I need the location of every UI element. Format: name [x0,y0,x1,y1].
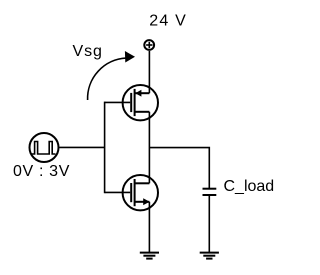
svg-text:24 V: 24 V [149,13,187,30]
wire M2 gate lead [105,191,131,193]
label 24 V [149,13,187,30]
svg-text:C_load: C_load [224,178,275,195]
wire supply to M1 source [148,51,150,93]
wire output node to capacitor [149,148,209,189]
Vsg arrow [88,51,135,100]
svg-text:Vsg: Vsg [73,43,103,60]
label 0V : 3V [13,163,70,180]
wire M2 source to ground [148,202,150,253]
svg-text:0V : 3V: 0V : 3V [13,163,70,180]
wire drain bus M1 to M2 [148,112,150,184]
nmos M2 [123,175,158,210]
pulse source V1 [30,133,59,162]
wire pulse to gate bus [60,146,105,148]
capacitor C_load [203,189,217,195]
supply node +24V [144,40,154,50]
pmos M1 [123,85,158,120]
label C_load [224,178,275,195]
wire M1 gate lead [105,101,131,103]
label Vsg [73,43,103,60]
wire capacitor to ground [208,195,210,253]
wire gate bus [104,102,106,194]
ground under capacitor [200,253,219,259]
ground under M2 [140,253,159,259]
